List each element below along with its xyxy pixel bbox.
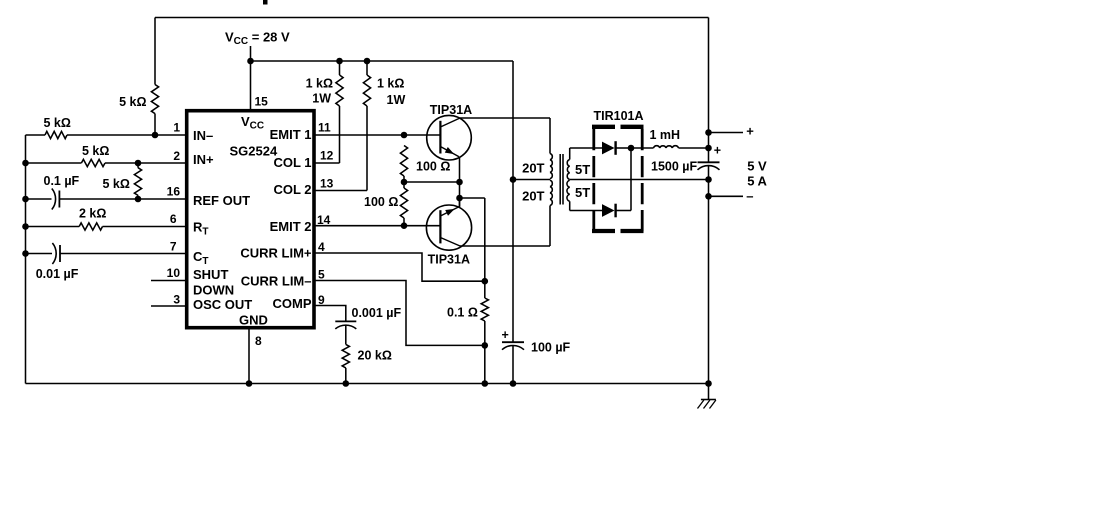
- wire: 100ohm mid to emitters: [404, 181, 460, 183]
- wire: output plus: [709, 132, 744, 134]
- capacitor 0.01 uF: [52, 243, 60, 264]
- svg-text:5 kΩ: 5 kΩ: [82, 144, 109, 158]
- pin 9: [318, 293, 325, 307]
- label VCC = 28 V: [225, 30, 290, 48]
- label REF OUT: [193, 193, 250, 208]
- svg-text:+: +: [714, 143, 721, 157]
- svg-text:5 A: 5 A: [747, 173, 767, 188]
- wire: secondary top to diode: [570, 147, 602, 149]
- node IN+ left bus: [22, 160, 29, 167]
- label EMIT 2: [270, 219, 312, 234]
- label 1 mH: [650, 128, 681, 142]
- wire: pin4 CURR LIM+ path: [314, 253, 485, 281]
- label 100 Ohm #2: [364, 195, 398, 209]
- resistor 1 kOhm 1W #2: [363, 61, 370, 191]
- svg-text:5 V: 5 V: [747, 159, 767, 174]
- svg-text:IN+: IN+: [193, 152, 214, 167]
- svg-text:100 µF: 100 µF: [531, 341, 571, 355]
- svg-text:0.01 µF: 0.01 µF: [36, 267, 79, 281]
- label SHUT: [193, 267, 228, 282]
- svg-text:1 kΩ: 1 kΩ: [306, 77, 333, 91]
- svg-text:GND: GND: [239, 312, 268, 327]
- label output -: [746, 188, 753, 203]
- node rectifier output: [628, 145, 635, 152]
- node output minus: [705, 193, 712, 200]
- resistor 20 kOhm: [342, 325, 349, 384]
- node primary center tap: [510, 176, 517, 183]
- wire: Q2 collector to primary: [460, 245, 550, 247]
- label 5 A: [747, 173, 767, 188]
- node RT row left bus: [22, 223, 29, 230]
- label 5 V: [747, 159, 767, 174]
- svg-text:100 Ω: 100 Ω: [364, 195, 398, 209]
- wire: 100ohm joint: [403, 176, 405, 188]
- wire: Vcc column upper: [512, 61, 514, 180]
- svg-text:SG2524: SG2524: [230, 144, 278, 159]
- wire: COL2 pin13 row: [314, 190, 367, 192]
- capacitor 1500 uF: [698, 162, 720, 170]
- label CURR LIM-: [241, 274, 312, 289]
- svg-text:–: –: [746, 188, 753, 203]
- wire: EMIT1 pin11 to Q1 base: [314, 134, 440, 136]
- label U1 name: [230, 144, 278, 159]
- wire: primary center tap: [513, 179, 550, 181]
- label 5 kOhm IN+: [82, 144, 109, 158]
- svg-text:1 mH: 1 mH: [650, 128, 681, 142]
- svg-text:100 Ω: 100 Ω: [416, 160, 450, 174]
- svg-text:10: 10: [167, 266, 181, 280]
- pin 10: [167, 266, 181, 280]
- resistor 5 kOhm IN-: [45, 131, 67, 138]
- wire: COL1 pin12 row: [314, 162, 340, 164]
- capacitor 100 uF: [502, 342, 524, 350]
- svg-text:1W: 1W: [312, 92, 331, 106]
- node EMIT2 100ohm bottom: [401, 222, 408, 229]
- node inductor output: [705, 145, 712, 152]
- svg-text:+: +: [502, 328, 509, 342]
- label IN-: [193, 128, 213, 143]
- node pin8 ground: [246, 380, 253, 387]
- transistor Q2 TIP31A: [426, 205, 471, 250]
- op-amp U1 SG2524 body: [187, 111, 314, 328]
- wire: secondary bottom to diode: [570, 210, 602, 212]
- svg-text:COL 2: COL 2: [273, 182, 311, 197]
- svg-text:COMP: COMP: [273, 296, 312, 311]
- wire: output rail vertical: [708, 18, 710, 384]
- svg-text:0.1 Ω: 0.1 Ω: [447, 306, 478, 320]
- label TIP31A Q1: [430, 103, 472, 117]
- svg-text:12: 12: [320, 149, 334, 163]
- wire: left ground bus vertical: [25, 135, 27, 384]
- svg-text:11: 11: [318, 121, 331, 135]
- wire: pin8 GND: [248, 328, 250, 384]
- svg-text:1: 1: [173, 121, 180, 135]
- svg-text:DOWN: DOWN: [193, 282, 234, 297]
- svg-text:0.001 µF: 0.001 µF: [352, 306, 402, 320]
- svg-text:2 kΩ: 2 kΩ: [79, 207, 106, 221]
- wire: pin5 CURR LIM- path: [314, 281, 485, 346]
- label GND: [239, 312, 268, 327]
- svg-text:2: 2: [173, 149, 180, 163]
- svg-text:13: 13: [320, 177, 334, 191]
- label 0.1 uF: [44, 174, 80, 188]
- svg-text:1 kΩ: 1 kΩ: [377, 77, 404, 91]
- resistor 0.1 Ohm: [481, 281, 488, 345]
- label 5T top: [575, 162, 590, 177]
- wire: pin3 stub: [151, 305, 187, 307]
- svg-text:TIP31A: TIP31A: [428, 253, 470, 267]
- pin 16: [167, 185, 181, 199]
- label + 1500uF: [714, 143, 721, 157]
- svg-text:16: 16: [167, 185, 181, 199]
- transformer T1 secondary: [567, 148, 570, 211]
- node Vcc 1k-1 junction: [336, 58, 343, 65]
- wire: D1 cathode to node: [616, 147, 631, 149]
- resistor 5 kOhm REF-to-IN+: [134, 163, 141, 199]
- node IN- feedback junction: [152, 132, 159, 139]
- wire: secondary center tap to output: [570, 179, 709, 181]
- svg-text:SHUT: SHUT: [193, 267, 228, 282]
- svg-text:20T: 20T: [522, 161, 544, 176]
- svg-text:20T: 20T: [522, 189, 544, 204]
- node sense top: [482, 278, 489, 285]
- resistor 1 kOhm 1W #1: [336, 61, 343, 163]
- label 20 kOhm: [358, 349, 392, 363]
- resistor 100 Ohm #1: [400, 146, 407, 177]
- wire: emitters to sense: [460, 197, 485, 199]
- wire: pin6 RT row: [26, 226, 187, 228]
- label CT: [193, 249, 209, 267]
- svg-text:EMIT 2: EMIT 2: [270, 219, 312, 234]
- node 20k ground: [343, 380, 350, 387]
- node 100uF ground: [510, 380, 517, 387]
- label OSC OUT: [193, 297, 252, 312]
- label 100 uF: [531, 341, 571, 355]
- pin 7: [170, 240, 177, 254]
- label COMP: [273, 296, 312, 311]
- wire: pin1 IN- row: [26, 134, 187, 136]
- label 5 kOhm feedback: [119, 95, 146, 109]
- pin 8: [255, 334, 262, 348]
- wire: 100uF to rail: [512, 346, 514, 384]
- resistor 2 kOhm: [79, 223, 102, 230]
- wire: Vcc rail: [251, 60, 514, 62]
- pin 5: [318, 268, 325, 282]
- svg-text:15: 15: [255, 95, 269, 109]
- node CT row left bus: [22, 250, 29, 257]
- pin 2: [173, 149, 180, 163]
- svg-text:8: 8: [255, 334, 262, 348]
- wire: Q2 emitter up: [459, 198, 461, 207]
- resistor 100 Ohm #2: [400, 188, 407, 226]
- pin 11: [318, 121, 331, 135]
- label 1W #1: [312, 92, 331, 106]
- rectifier TIR101A dashed box: [592, 127, 644, 231]
- svg-text:3: 3: [173, 293, 180, 307]
- svg-text:IN–: IN–: [193, 128, 213, 143]
- svg-text:TIP31A: TIP31A: [430, 103, 472, 117]
- capacitor 0.001 uF: [335, 321, 356, 329]
- label COL 1: [273, 155, 311, 170]
- svg-text:1500 µF: 1500 µF: [651, 160, 697, 174]
- wire: pin9 COMP: [314, 306, 346, 322]
- pin 1: [173, 121, 180, 135]
- label 5 kOhm IN-: [44, 116, 71, 130]
- svg-text:CURR LIM+: CURR LIM+: [240, 246, 312, 261]
- node EMIT1 100ohm top: [401, 132, 408, 139]
- node IN+ divider junction: [135, 160, 142, 167]
- node REF OUT divider junction: [135, 196, 142, 203]
- wire: bottom ground rail: [26, 383, 709, 385]
- label output +: [746, 124, 754, 139]
- label 1 kOhm #1: [306, 77, 333, 91]
- capacitor 0.1 uF: [52, 189, 60, 210]
- label TIR101A: [594, 109, 644, 123]
- svg-text:COL 1: COL 1: [273, 155, 311, 170]
- resistor 5 kOhm IN+: [81, 159, 105, 166]
- wire: emitter vertical: [459, 157, 461, 208]
- wire: Vcc pin 15 vertical: [250, 46, 252, 111]
- label TIP31A Q2: [428, 253, 470, 267]
- node output plus: [705, 129, 712, 136]
- svg-text:5: 5: [318, 268, 325, 282]
- label 5 kOhm REF-to-IN+: [103, 177, 130, 191]
- transformer T1 core: [560, 154, 563, 205]
- resistor 5 kOhm feedback: [151, 18, 158, 136]
- wire: Q1 collector to primary: [460, 117, 550, 119]
- label + 100uF: [502, 328, 509, 342]
- label U1 VCC pin name: [241, 114, 264, 132]
- pin 14: [317, 213, 331, 227]
- node emitter vertical mid: [456, 179, 463, 186]
- pin 12: [320, 149, 334, 163]
- node emitters join: [456, 195, 463, 202]
- transformer T1 primary: [550, 118, 552, 246]
- svg-text:EMIT 1: EMIT 1: [270, 127, 312, 142]
- node sense ground: [482, 380, 489, 387]
- node 100ohm midpoint: [401, 179, 408, 186]
- label 1W #2: [387, 93, 406, 107]
- svg-text:+: +: [746, 124, 754, 139]
- pin 3: [173, 293, 180, 307]
- svg-text:7: 7: [170, 240, 177, 254]
- wire: D2 cathode up to node: [616, 148, 631, 211]
- label EMIT 1: [270, 127, 312, 142]
- transistor Q1 TIP31A: [427, 115, 472, 160]
- pin 6: [170, 212, 177, 226]
- pin 4: [318, 240, 325, 254]
- svg-text:5 kΩ: 5 kΩ: [103, 177, 130, 191]
- wire: sense vertical top: [484, 198, 486, 281]
- pin 13: [320, 177, 334, 191]
- svg-text:4: 4: [318, 240, 325, 254]
- label 100 Ohm #1: [416, 160, 450, 174]
- node Vcc pin15 junction: [247, 58, 254, 65]
- label 20T bottom: [522, 189, 544, 204]
- svg-text:14: 14: [317, 213, 331, 227]
- node sense bottom: [482, 342, 489, 349]
- wire: output minus: [709, 195, 744, 197]
- svg-text:OSC OUT: OSC OUT: [193, 297, 252, 312]
- svg-text:5T: 5T: [575, 185, 590, 200]
- wire: sense to ground: [484, 345, 486, 383]
- svg-text:TIR101A: TIR101A: [594, 109, 644, 123]
- label COL 2: [273, 182, 311, 197]
- wire: EMIT2 pin14 to Q2 base: [314, 225, 440, 227]
- wire: pin2 IN+ row: [26, 162, 187, 164]
- label 1 kOhm #2: [377, 77, 404, 91]
- wire: pin7 CT row: [26, 253, 187, 255]
- label 5T bottom: [575, 185, 590, 200]
- label CURR LIM+: [240, 246, 312, 261]
- label 0.1 Ohm: [447, 306, 478, 320]
- node Vcc 1k-2 junction: [364, 58, 371, 65]
- label 2 kOhm: [79, 207, 106, 221]
- pin 15: [255, 95, 269, 109]
- label RT: [193, 220, 209, 238]
- cut-off title descender: [263, 0, 268, 5]
- svg-text:20 kΩ: 20 kΩ: [358, 349, 392, 363]
- svg-text:6: 6: [170, 212, 177, 226]
- label 20T top: [522, 161, 544, 176]
- svg-text:0.1 µF: 0.1 µF: [44, 174, 80, 188]
- diode D1: [602, 141, 616, 155]
- svg-text:5T: 5T: [575, 162, 590, 177]
- label 1500 uF: [651, 160, 697, 174]
- ground: [698, 384, 716, 409]
- inductor 1 mH: [631, 146, 709, 148]
- svg-text:REF OUT: REF OUT: [193, 193, 250, 208]
- label 0.01 uF: [36, 267, 79, 281]
- svg-text:CURR LIM–: CURR LIM–: [241, 274, 312, 289]
- node center tap return: [705, 176, 712, 183]
- label 0.001 uF: [352, 306, 402, 320]
- wire: Vcc column lower: [512, 180, 514, 343]
- wire: pin10 stub: [151, 280, 187, 282]
- diode D2: [602, 204, 616, 218]
- wire: feedback top line: [155, 17, 709, 19]
- label IN+: [193, 152, 214, 167]
- node REF row left bus: [22, 196, 29, 203]
- svg-text:5 kΩ: 5 kΩ: [119, 95, 146, 109]
- wire: pin16 REF OUT row: [26, 198, 187, 200]
- svg-text:1W: 1W: [387, 93, 406, 107]
- svg-text:5 kΩ: 5 kΩ: [44, 116, 71, 130]
- node rail ground corner: [705, 380, 712, 387]
- label DOWN: [193, 282, 234, 297]
